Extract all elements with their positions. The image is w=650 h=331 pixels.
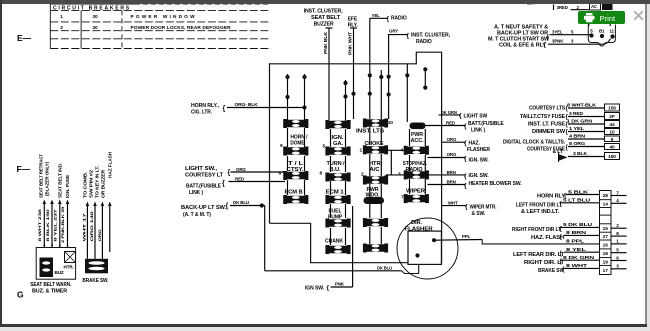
svg-text:PNK BLK: PNK BLK bbox=[323, 31, 328, 54]
svg-text:8 PPL: 8 PPL bbox=[566, 239, 585, 244]
heater HTR bbox=[65, 252, 76, 263]
wire 8 DK GRN right dir bbox=[561, 259, 600, 261]
wire 8 BRN haz flash bbox=[564, 234, 600, 236]
fuse terminal B2 bbox=[325, 147, 350, 156]
fuse terminal D3 bbox=[404, 194, 429, 203]
svg-text:44: 44 bbox=[609, 122, 615, 128]
wire brake 2 bbox=[94, 206, 96, 259]
wire htr to stop/haz bbox=[386, 174, 404, 176]
svg-text:2 PNK-BLK 39: 2 PNK-BLK 39 bbox=[60, 206, 65, 243]
svg-text:GRY: GRY bbox=[389, 29, 398, 34]
svg-text:8 ORG: 8 ORG bbox=[569, 141, 586, 146]
svg-text:5 LT BLU: 5 LT BLU bbox=[563, 198, 590, 203]
svg-text:FLASHER: FLASHER bbox=[467, 147, 490, 153]
svg-text:& LEFT IND.LT.: & LEFT IND.LT. bbox=[521, 209, 560, 215]
svg-text:1: 1 bbox=[60, 14, 63, 20]
fuse terminal C5 bbox=[363, 244, 388, 253]
svg-text:DK GRN: DK GRN bbox=[441, 110, 457, 115]
svg-text:7: 7 bbox=[401, 195, 404, 201]
svg-text:5 DK BLU: 5 DK BLU bbox=[563, 222, 592, 227]
svg-text:8 YEL 237: 8 YEL 237 bbox=[53, 208, 58, 242]
svg-text:8 WHT-BLK: 8 WHT-BLK bbox=[567, 103, 597, 108]
svg-text:BUZ: BUZ bbox=[55, 270, 64, 275]
svg-text:8 BRN: 8 BRN bbox=[566, 230, 586, 235]
svg-text:INST. LTS: INST. LTS bbox=[356, 129, 385, 135]
svg-text:HEATER BLOWER SW.: HEATER BLOWER SW. bbox=[469, 181, 523, 187]
svg-text:B1: B1 bbox=[599, 29, 605, 34]
svg-text:2: 2 bbox=[60, 25, 63, 31]
svg-text:POWER DOOR LOCKS, REAR DEF: POWER DOOR LOCKS, REAR DEFOGGER bbox=[131, 25, 232, 31]
svg-text:(BLAZER ONLY): (BLAZER ONLY) bbox=[45, 161, 50, 196]
svg-text:CIRCUIT BREAKERS: CIRCUIT BREAKERS bbox=[53, 6, 130, 12]
wire seat belt 2 bbox=[51, 204, 53, 248]
svg-text:8 WHT 238: 8 WHT 238 bbox=[37, 208, 42, 242]
svg-text:ORG: ORG bbox=[447, 152, 457, 157]
svg-text:1: 1 bbox=[66, 244, 68, 248]
connector pins 5 B1 11 bbox=[588, 25, 615, 47]
svg-text:CRANK: CRANK bbox=[325, 239, 343, 245]
svg-text:30: 30 bbox=[92, 14, 98, 20]
svg-text:IGN. SW.: IGN. SW. bbox=[469, 173, 490, 179]
fuse terminal A1 bbox=[283, 119, 308, 128]
circuit breaker table bbox=[50, 4, 271, 49]
svg-text:YEL: YEL bbox=[372, 13, 381, 18]
svg-text:COURTESY LTS: COURTESY LTS bbox=[529, 106, 566, 112]
svg-text:2F: 2F bbox=[609, 114, 615, 120]
svg-text:B.U.: B.U. bbox=[330, 167, 342, 173]
svg-text:ECM B: ECM B bbox=[285, 189, 304, 195]
fuse terminal B6 bbox=[325, 245, 350, 254]
svg-text:19: 19 bbox=[603, 260, 609, 266]
svg-text:150: 150 bbox=[608, 154, 616, 160]
svg-text:BRAKE SW.: BRAKE SW. bbox=[82, 278, 109, 284]
print button bbox=[578, 11, 625, 24]
svg-text:ORG 140: ORG 140 bbox=[89, 210, 94, 242]
svg-text:WHT: WHT bbox=[448, 200, 458, 205]
connector block upper right bbox=[605, 104, 620, 111]
svg-text:COIL & EFE & RLY: COIL & EFE & RLY bbox=[499, 42, 547, 48]
circuit breaker CB1 pill bbox=[364, 197, 385, 204]
wire seat belt 4 bbox=[67, 204, 69, 248]
svg-text:1 DK GRN: 1 DK GRN bbox=[567, 119, 592, 124]
svg-text:LIGHT SW: LIGHT SW bbox=[464, 113, 488, 119]
svg-text:{: { bbox=[228, 170, 231, 177]
svg-text:LINK ): LINK ) bbox=[471, 127, 486, 133]
wire 5 LT BLU left front dir bbox=[561, 202, 600, 204]
svg-text:HAZ FLASH: HAZ FLASH bbox=[108, 152, 113, 178]
svg-text:HAZ.: HAZ. bbox=[469, 140, 481, 146]
fuse terminal B5 bbox=[325, 219, 350, 228]
svg-text:LIGHT SW.,: LIGHT SW., bbox=[185, 166, 218, 172]
svg-text:INST. CLUSTER,: INST. CLUSTER, bbox=[411, 33, 451, 39]
svg-text:ORG- BLK: ORG- BLK bbox=[235, 102, 259, 107]
fuse terminal A4 bbox=[283, 195, 308, 204]
connector block lower right bbox=[600, 191, 612, 275]
svg-text:CIG. LTR.: CIG. LTR. bbox=[191, 110, 213, 116]
wire 8 WHT brake sw bbox=[564, 267, 600, 269]
svg-text:{: { bbox=[222, 181, 225, 188]
svg-text:{: { bbox=[223, 106, 226, 113]
svg-text:WHT 17: WHT 17 bbox=[82, 212, 87, 242]
wire brake 3 bbox=[101, 206, 103, 259]
svg-text:3PNK: 3PNK bbox=[552, 39, 564, 44]
fuse terminal B3 bbox=[325, 173, 350, 182]
dir flasher box bbox=[408, 231, 441, 264]
page top bar bbox=[0, 0, 650, 4]
page bottom border bbox=[0, 324, 647, 327]
svg-text:TO KEY IN LT.: TO KEY IN LT. bbox=[95, 166, 100, 198]
svg-text:TAILLT.CTSY FUSE: TAILLT.CTSY FUSE bbox=[520, 114, 566, 120]
svg-text:8 YEL: 8 YEL bbox=[566, 247, 587, 252]
svg-text:ORG: ORG bbox=[447, 137, 457, 142]
svg-text:5 BLK: 5 BLK bbox=[568, 189, 590, 194]
wire seat belt 3 bbox=[59, 204, 61, 248]
svg-text:18: 18 bbox=[603, 251, 609, 257]
svg-text:SEAT BELT WARN.: SEAT BELT WARN. bbox=[30, 282, 72, 288]
svg-text:ORG: ORG bbox=[97, 229, 102, 241]
svg-text:OR BUZZER: OR BUZZER bbox=[101, 169, 106, 198]
wire choke to pwr acc bbox=[386, 149, 404, 151]
svg-text:3YEL: 3YEL bbox=[552, 29, 563, 34]
svg-text:{: { bbox=[226, 203, 229, 210]
svg-text:BATT.(FUSIBLE: BATT.(FUSIBLE bbox=[186, 184, 222, 190]
svg-text:(CB): (CB) bbox=[369, 199, 379, 204]
close X bbox=[633, 10, 644, 21]
wire seat belt 1 bbox=[43, 204, 45, 248]
svg-text:ACC.: ACC. bbox=[411, 138, 425, 144]
svg-text:ORG: ORG bbox=[236, 167, 246, 172]
svg-text:11: 11 bbox=[610, 29, 615, 34]
svg-text:TO COMB.: TO COMB. bbox=[83, 172, 88, 198]
buzzer BUZ bbox=[40, 258, 54, 278]
svg-text:6: 6 bbox=[279, 171, 282, 177]
svg-text:1 YEL: 1 YEL bbox=[569, 126, 585, 131]
svg-text:DK BLU: DK BLU bbox=[377, 265, 392, 270]
svg-text:RED: RED bbox=[235, 176, 244, 181]
page left edge bbox=[0, 0, 2, 326]
svg-text:FLASHER: FLASHER bbox=[405, 226, 434, 232]
vertical connector choke column bbox=[390, 150, 392, 175]
svg-text:8 BLK 150: 8 BLK 150 bbox=[45, 208, 50, 242]
fuse block outline bbox=[270, 52, 442, 263]
svg-text:BACK-UP LT SW.: BACK-UP LT SW. bbox=[181, 205, 227, 211]
svg-text:BRAKE SW: BRAKE SW bbox=[538, 268, 564, 274]
wire PPL bbox=[434, 239, 482, 242]
svg-text:COURTESY LT: COURTESY LT bbox=[185, 173, 223, 179]
svg-text:10: 10 bbox=[388, 120, 394, 126]
svg-text:DIR.: DIR. bbox=[411, 220, 423, 226]
bus rail col2 right bbox=[345, 80, 347, 121]
stub wire col4 right bbox=[424, 69, 426, 87]
svg-text:LINK ): LINK ) bbox=[189, 190, 203, 196]
svg-text:BATT.(FUSIBLE: BATT.(FUSIBLE bbox=[468, 121, 504, 127]
svg-text:IGN. SW.: IGN. SW. bbox=[469, 158, 490, 164]
fuse terminal C1 bbox=[363, 119, 388, 128]
svg-text:14: 14 bbox=[603, 202, 609, 208]
flasher circle bbox=[397, 218, 458, 279]
svg-text:28: 28 bbox=[603, 193, 609, 199]
svg-text:INST. CLUSTER,: INST. CLUSTER, bbox=[304, 9, 344, 15]
svg-text:DOME: DOME bbox=[290, 141, 305, 147]
fuse terminal B4 bbox=[325, 195, 350, 204]
svg-text:PPL: PPL bbox=[462, 234, 471, 239]
svg-text:GA.: GA. bbox=[333, 141, 344, 147]
svg-text:SEAT BELT IND.: SEAT BELT IND. bbox=[58, 163, 63, 198]
svg-text:PNK: PNK bbox=[335, 282, 345, 287]
page right gutter bbox=[645, 4, 650, 331]
svg-text:HTR.: HTR. bbox=[64, 265, 74, 270]
svg-text:3 BLK: 3 BLK bbox=[573, 151, 588, 156]
svg-text:SEAT BELT RETRACT: SEAT BELT RETRACT bbox=[39, 153, 44, 198]
svg-text:HORN RLY.,: HORN RLY., bbox=[191, 103, 220, 109]
svg-text:RED: RED bbox=[446, 120, 455, 125]
svg-text:9: 9 bbox=[280, 143, 283, 149]
wire haz flash stub bbox=[109, 206, 111, 252]
circuit breaker CB pill PWR ACC bbox=[410, 123, 426, 130]
svg-text:BRN: BRN bbox=[447, 179, 456, 184]
svg-text:DIGITAL CLOCK & TAILLTS.: DIGITAL CLOCK & TAILLTS. bbox=[503, 140, 566, 146]
svg-text:ECM 1: ECM 1 bbox=[326, 189, 344, 195]
fuse terminal A2 bbox=[283, 147, 308, 156]
wire brake 1 bbox=[86, 206, 88, 259]
svg-text:LEFT REAR DIR. LT: LEFT REAR DIR. LT bbox=[513, 252, 564, 258]
svg-text:F—: F— bbox=[17, 164, 31, 174]
svg-text:9: 9 bbox=[611, 137, 614, 143]
svg-text:INST. LT. FUSE: INST. LT. FUSE bbox=[528, 122, 566, 128]
svg-text:PNK WHT: PNK WHT bbox=[347, 31, 352, 55]
svg-text:& LT: & LT bbox=[553, 149, 563, 155]
svg-text:LEFT FRONT DIR LT: LEFT FRONT DIR LT bbox=[516, 202, 562, 208]
brake sw connector bbox=[85, 259, 108, 274]
svg-text:RIGHT FRONT DIR LT: RIGHT FRONT DIR LT bbox=[512, 227, 561, 233]
svg-text:IGN. FUSE: IGN. FUSE bbox=[65, 175, 70, 198]
wire 5 BLK horn rly bbox=[566, 194, 600, 196]
svg-text:DK BLU: DK BLU bbox=[233, 200, 249, 205]
svg-text:BUZ. & TIMER: BUZ. & TIMER bbox=[32, 289, 68, 295]
svg-text:27: 27 bbox=[603, 234, 609, 240]
svg-text:G: G bbox=[17, 290, 24, 300]
svg-text:E—: E— bbox=[17, 33, 32, 43]
bus rail col4 bbox=[406, 64, 408, 122]
svg-text:4 BRN: 4 BRN bbox=[569, 134, 585, 139]
svg-text:15: 15 bbox=[603, 226, 609, 232]
fuse terminal C2 bbox=[363, 145, 388, 154]
wire 5 DK BLU right front dir bbox=[561, 226, 600, 228]
svg-text:RADIO: RADIO bbox=[416, 39, 432, 45]
svg-text:AC: AC bbox=[591, 4, 597, 9]
svg-text:156: 156 bbox=[608, 106, 616, 112]
bus rail col3 mid bbox=[380, 70, 382, 119]
svg-text:HORN RLY: HORN RLY bbox=[537, 193, 566, 199]
svg-text:A/C: A/C bbox=[370, 167, 381, 173]
fuse terminal A3 bbox=[283, 171, 308, 180]
printer icon bbox=[584, 13, 595, 22]
svg-text:SEAT BELT: SEAT BELT bbox=[311, 15, 340, 21]
svg-text:8: 8 bbox=[320, 171, 323, 177]
bus rail col3 right bbox=[387, 75, 391, 79]
svg-text:(A. T & M. T): (A. T & M. T) bbox=[183, 212, 211, 218]
svg-text:SW PIN #2: SW PIN #2 bbox=[89, 169, 94, 198]
bus rail col1 right bbox=[304, 74, 306, 120]
svg-text:8 WHT: 8 WHT bbox=[566, 263, 588, 268]
svg-text:16: 16 bbox=[603, 243, 609, 249]
bus rail col3 left bbox=[368, 73, 372, 77]
wires behind print button bbox=[588, 23, 590, 27]
seat belt warn buzzer timer box bbox=[36, 248, 75, 280]
fuse terminal C3 bbox=[363, 176, 388, 185]
svg-text:1: 1 bbox=[360, 148, 363, 154]
svg-text:WIPER MTR.: WIPER MTR. bbox=[470, 205, 498, 211]
wire 8 YEL left rear dir bbox=[564, 251, 600, 253]
svg-text:RADIO: RADIO bbox=[391, 16, 407, 22]
svg-text:IGN SW.: IGN SW. bbox=[305, 286, 325, 292]
svg-text:2: 2 bbox=[59, 244, 61, 248]
bus rail col1 left bbox=[287, 74, 289, 120]
wire PNK BLK bbox=[328, 28, 330, 120]
svg-text:DIMMER SW: DIMMER SW bbox=[532, 129, 565, 135]
wire PNK WHT bbox=[353, 28, 355, 119]
svg-text:RIGHT DIR. LT: RIGHT DIR. LT bbox=[524, 260, 564, 266]
svg-text:& SW.: & SW. bbox=[472, 211, 486, 217]
svg-text:5: 5 bbox=[323, 144, 326, 150]
svg-text:BRN: BRN bbox=[447, 170, 456, 175]
svg-text:17: 17 bbox=[603, 268, 609, 274]
svg-text:30: 30 bbox=[92, 25, 98, 31]
fuse terminal D1 bbox=[404, 146, 429, 155]
svg-text:8 DK GRN: 8 DK GRN bbox=[563, 255, 594, 260]
svg-text:(CB): (CB) bbox=[413, 124, 423, 129]
svg-text:40: 40 bbox=[609, 145, 615, 151]
svg-text:3 RED: 3 RED bbox=[569, 111, 583, 116]
svg-text:3RED: 3RED bbox=[557, 5, 568, 10]
svg-text:Print: Print bbox=[600, 13, 617, 22]
fuse terminal D2 bbox=[404, 170, 429, 179]
fuse terminal B1 bbox=[325, 120, 350, 129]
svg-text:10: 10 bbox=[609, 130, 615, 136]
svg-text:3: 3 bbox=[51, 244, 53, 248]
svg-text:BUZZER: BUZZER bbox=[314, 21, 334, 27]
fuse terminal C4 bbox=[363, 218, 388, 227]
